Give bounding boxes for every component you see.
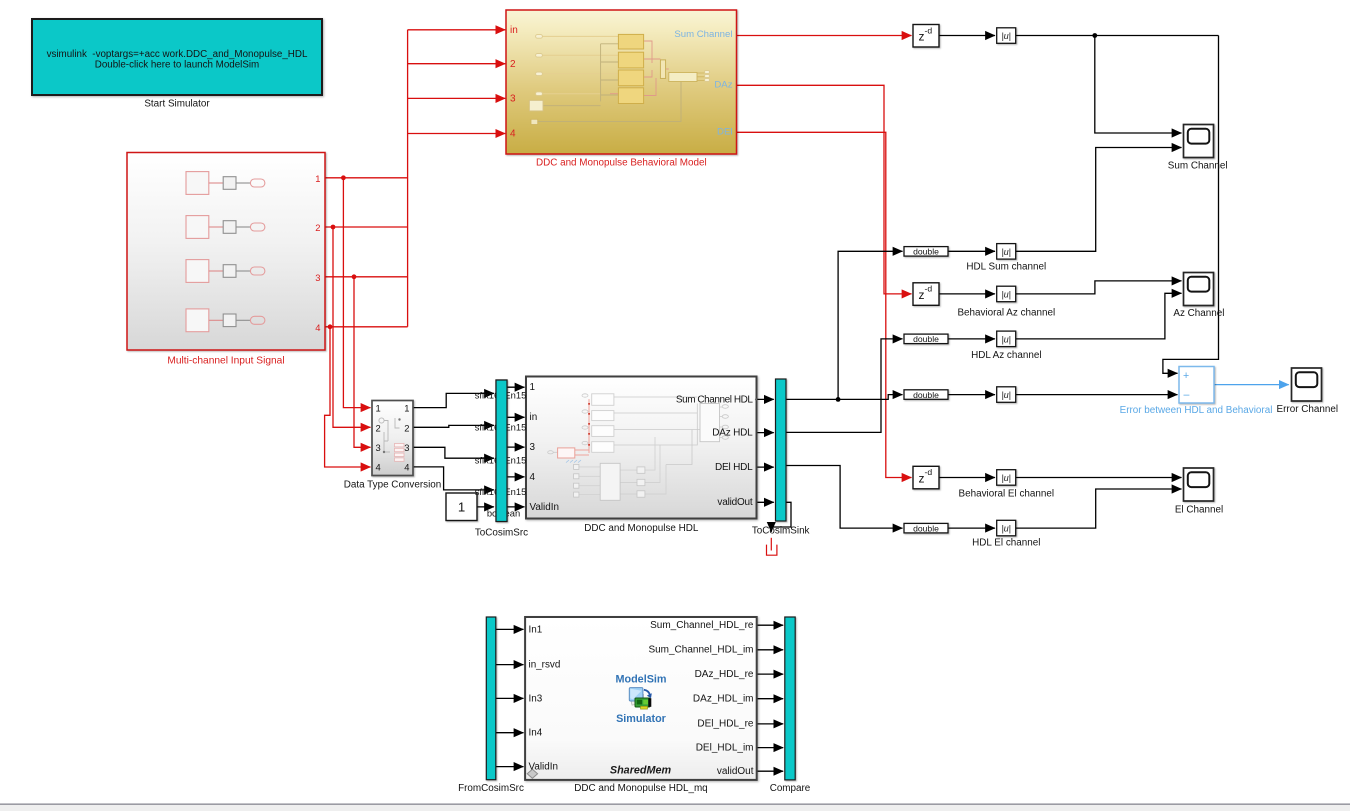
svg-text:Double-click here to launch Mo: Double-click here to launch ModelSim xyxy=(95,59,259,70)
svg-text:|u|: |u| xyxy=(1001,334,1010,344)
svg-text:Multi-channel Input Signal: Multi-channel Input Signal xyxy=(167,355,284,366)
svg-text:4: 4 xyxy=(510,129,516,140)
svg-text:DDC and Monopulse HDL: DDC and Monopulse HDL xyxy=(584,523,699,534)
svg-text:in: in xyxy=(510,25,518,36)
svg-text:ValidIn: ValidIn xyxy=(530,502,559,513)
svg-text:3: 3 xyxy=(376,442,381,453)
svg-text:Sum_Channel_HDL_re: Sum_Channel_HDL_re xyxy=(650,620,754,631)
svg-text:HDL Az channel: HDL Az channel xyxy=(971,350,1041,361)
svg-text:In3: In3 xyxy=(529,693,543,704)
svg-text:Behavioral El channel: Behavioral El channel xyxy=(959,488,1055,499)
svg-text:Data Type Conversion: Data Type Conversion xyxy=(344,480,442,491)
svg-text:4: 4 xyxy=(315,322,320,333)
svg-text:Error between HDL and Behavior: Error between HDL and Behavioral xyxy=(1120,405,1273,416)
svg-text:DDC and Monopulse Behavioral M: DDC and Monopulse Behavioral Model xyxy=(536,157,707,168)
svg-text:4: 4 xyxy=(530,472,536,483)
svg-text:Sum Channel: Sum Channel xyxy=(674,29,732,40)
svg-text:|u|: |u| xyxy=(1001,473,1010,483)
svg-text:DAz: DAz xyxy=(714,80,732,91)
svg-text:double: double xyxy=(913,334,939,344)
svg-text:FromCosimSrc: FromCosimSrc xyxy=(458,783,524,794)
svg-text:SharedMem: SharedMem xyxy=(610,764,672,776)
svg-text:HDL Sum channel: HDL Sum channel xyxy=(966,262,1046,273)
svg-text:|u|: |u| xyxy=(1001,524,1010,534)
svg-text:DDC and Monopulse HDL_mq: DDC and Monopulse HDL_mq xyxy=(574,783,707,794)
svg-text:1: 1 xyxy=(315,173,320,184)
svg-text:Behavioral Az channel: Behavioral Az channel xyxy=(957,308,1055,319)
svg-text:in: in xyxy=(530,412,538,423)
svg-text:1: 1 xyxy=(458,500,465,515)
svg-text:|u|: |u| xyxy=(1001,390,1010,400)
svg-text:-d: -d xyxy=(925,26,933,36)
svg-text:2: 2 xyxy=(404,422,409,433)
svg-text:ModelSim: ModelSim xyxy=(616,673,667,685)
svg-text:DAz_HDL_re: DAz_HDL_re xyxy=(695,669,754,680)
svg-text:3: 3 xyxy=(315,272,320,283)
svg-text:ValidIn: ValidIn xyxy=(529,762,558,773)
svg-text:-d: -d xyxy=(925,467,933,477)
svg-text:–: – xyxy=(1184,389,1190,401)
svg-text:HDL El channel: HDL El channel xyxy=(972,537,1040,548)
svg-text:3: 3 xyxy=(510,94,516,105)
svg-text:ToCosimSrc: ToCosimSrc xyxy=(475,528,528,539)
svg-text:Az Channel: Az Channel xyxy=(1173,308,1224,319)
svg-text:1: 1 xyxy=(376,403,381,414)
svg-text:|u|: |u| xyxy=(1001,289,1010,299)
svg-text:Simulator: Simulator xyxy=(616,713,667,725)
svg-text:Compare: Compare xyxy=(770,783,811,794)
svg-text:1: 1 xyxy=(404,403,409,414)
svg-text:double: double xyxy=(913,247,939,257)
svg-text:double: double xyxy=(913,390,939,400)
svg-text:validOut: validOut xyxy=(717,497,753,508)
svg-text:Sum Channel HDL: Sum Channel HDL xyxy=(676,394,754,405)
svg-text:Sum Channel: Sum Channel xyxy=(1168,161,1228,172)
svg-text:DEl_HDL_re: DEl_HDL_re xyxy=(697,719,754,730)
svg-text:vsimulink -voptargs=+acc work: vsimulink -voptargs=+acc work.DDC_and_Mo… xyxy=(47,49,308,60)
svg-text:Error Channel: Error Channel xyxy=(1277,404,1338,415)
svg-text:Sum_Channel_HDL_im: Sum_Channel_HDL_im xyxy=(648,645,753,656)
svg-text:validOut: validOut xyxy=(717,766,754,777)
svg-text:3: 3 xyxy=(404,442,409,453)
svg-text:El Channel: El Channel xyxy=(1175,504,1223,515)
svg-text:2: 2 xyxy=(315,222,320,233)
svg-text:DEl HDL: DEl HDL xyxy=(715,462,753,473)
svg-text:4: 4 xyxy=(376,462,381,473)
svg-text:+: + xyxy=(1183,370,1189,382)
svg-text:DEl: DEl xyxy=(717,127,732,138)
svg-text:2: 2 xyxy=(510,59,516,70)
svg-text:2: 2 xyxy=(376,422,381,433)
svg-text:In4: In4 xyxy=(529,728,543,739)
svg-text:3: 3 xyxy=(530,442,536,453)
svg-text:Start Simulator: Start Simulator xyxy=(144,99,210,110)
svg-text:DAz HDL: DAz HDL xyxy=(712,428,753,439)
svg-text:|u|: |u| xyxy=(1001,31,1010,41)
svg-text:DEl_HDL_im: DEl_HDL_im xyxy=(696,742,754,753)
svg-text:DAz_HDL_im: DAz_HDL_im xyxy=(693,693,754,704)
svg-text:In1: In1 xyxy=(529,624,543,635)
svg-text:ToCosimSink: ToCosimSink xyxy=(752,525,810,536)
svg-text:|u|: |u| xyxy=(1001,247,1010,257)
svg-text:1: 1 xyxy=(530,382,536,393)
svg-text:-d: -d xyxy=(925,284,933,294)
svg-text:4: 4 xyxy=(404,462,409,473)
svg-text:in_rsvd: in_rsvd xyxy=(529,660,561,671)
svg-text:double: double xyxy=(913,523,939,533)
